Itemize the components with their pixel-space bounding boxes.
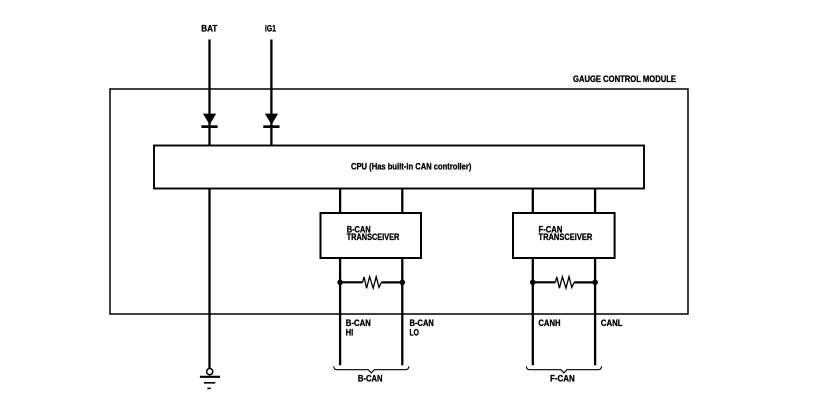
label F-CAN TRANSCEIVER	[539, 225, 593, 243]
svg-text:HI: HI	[346, 327, 353, 337]
wire BAT input	[208, 40, 210, 146]
resistor R2 (F-CAN termination)	[533, 277, 595, 289]
junction node CANH	[530, 280, 536, 286]
brace B-CAN bus	[334, 366, 409, 373]
B-CAN transceiver box U2	[321, 213, 422, 258]
svg-text:CPU (Has built-in CAN controll: CPU (Has built-in CAN controller)	[351, 162, 471, 172]
label B-CAN TRANSCEIVER	[347, 225, 400, 243]
svg-text:F-CAN: F-CAN	[550, 374, 575, 385]
module box GAUGE CONTROL MODULE	[110, 89, 688, 314]
wire CANL from transceiver to connector	[594, 257, 596, 365]
svg-text:CANL: CANL	[601, 318, 623, 328]
wire CPU to B-CAN transceiver right	[401, 189, 403, 215]
svg-text:B-CAN: B-CAN	[358, 374, 383, 385]
wire CANH from transceiver to connector	[532, 257, 534, 365]
diode D2 (IG1)	[263, 114, 279, 128]
wire CPU to F-CAN transceiver left	[532, 189, 534, 215]
junction node CANL	[592, 280, 598, 286]
wire B-CAN LO from transceiver to connector	[401, 257, 403, 365]
pin label B-CAN LO	[410, 318, 434, 337]
svg-text:LO: LO	[410, 327, 419, 337]
diode D1 (BAT)	[201, 114, 217, 128]
F-CAN transceiver box U3	[513, 213, 615, 258]
pin label B-CAN HI	[346, 318, 371, 337]
wire CPU to B-CAN transceiver left	[339, 189, 341, 215]
svg-text:TRANSCEIVER: TRANSCEIVER	[539, 232, 593, 242]
ground G1	[200, 369, 220, 389]
svg-text:CANH: CANH	[538, 318, 560, 328]
wire CPU to F-CAN transceiver right	[594, 189, 596, 215]
brace F-CAN bus	[526, 366, 601, 373]
svg-text:TRANSCEIVER: TRANSCEIVER	[347, 232, 400, 242]
wire IG1 input	[270, 40, 272, 146]
svg-text:IG1: IG1	[265, 24, 276, 34]
junction node B-CAN LO	[400, 280, 406, 286]
CPU box U1	[154, 146, 644, 189]
svg-text:BAT: BAT	[201, 24, 217, 34]
wire B-CAN HI from transceiver to connector	[339, 257, 341, 365]
svg-text:GAUGE CONTROL MODULE: GAUGE CONTROL MODULE	[573, 74, 676, 84]
junction node B-CAN HI	[337, 280, 343, 286]
resistor R1 (B-CAN termination)	[340, 277, 402, 289]
wire CPU to ground	[208, 189, 210, 369]
